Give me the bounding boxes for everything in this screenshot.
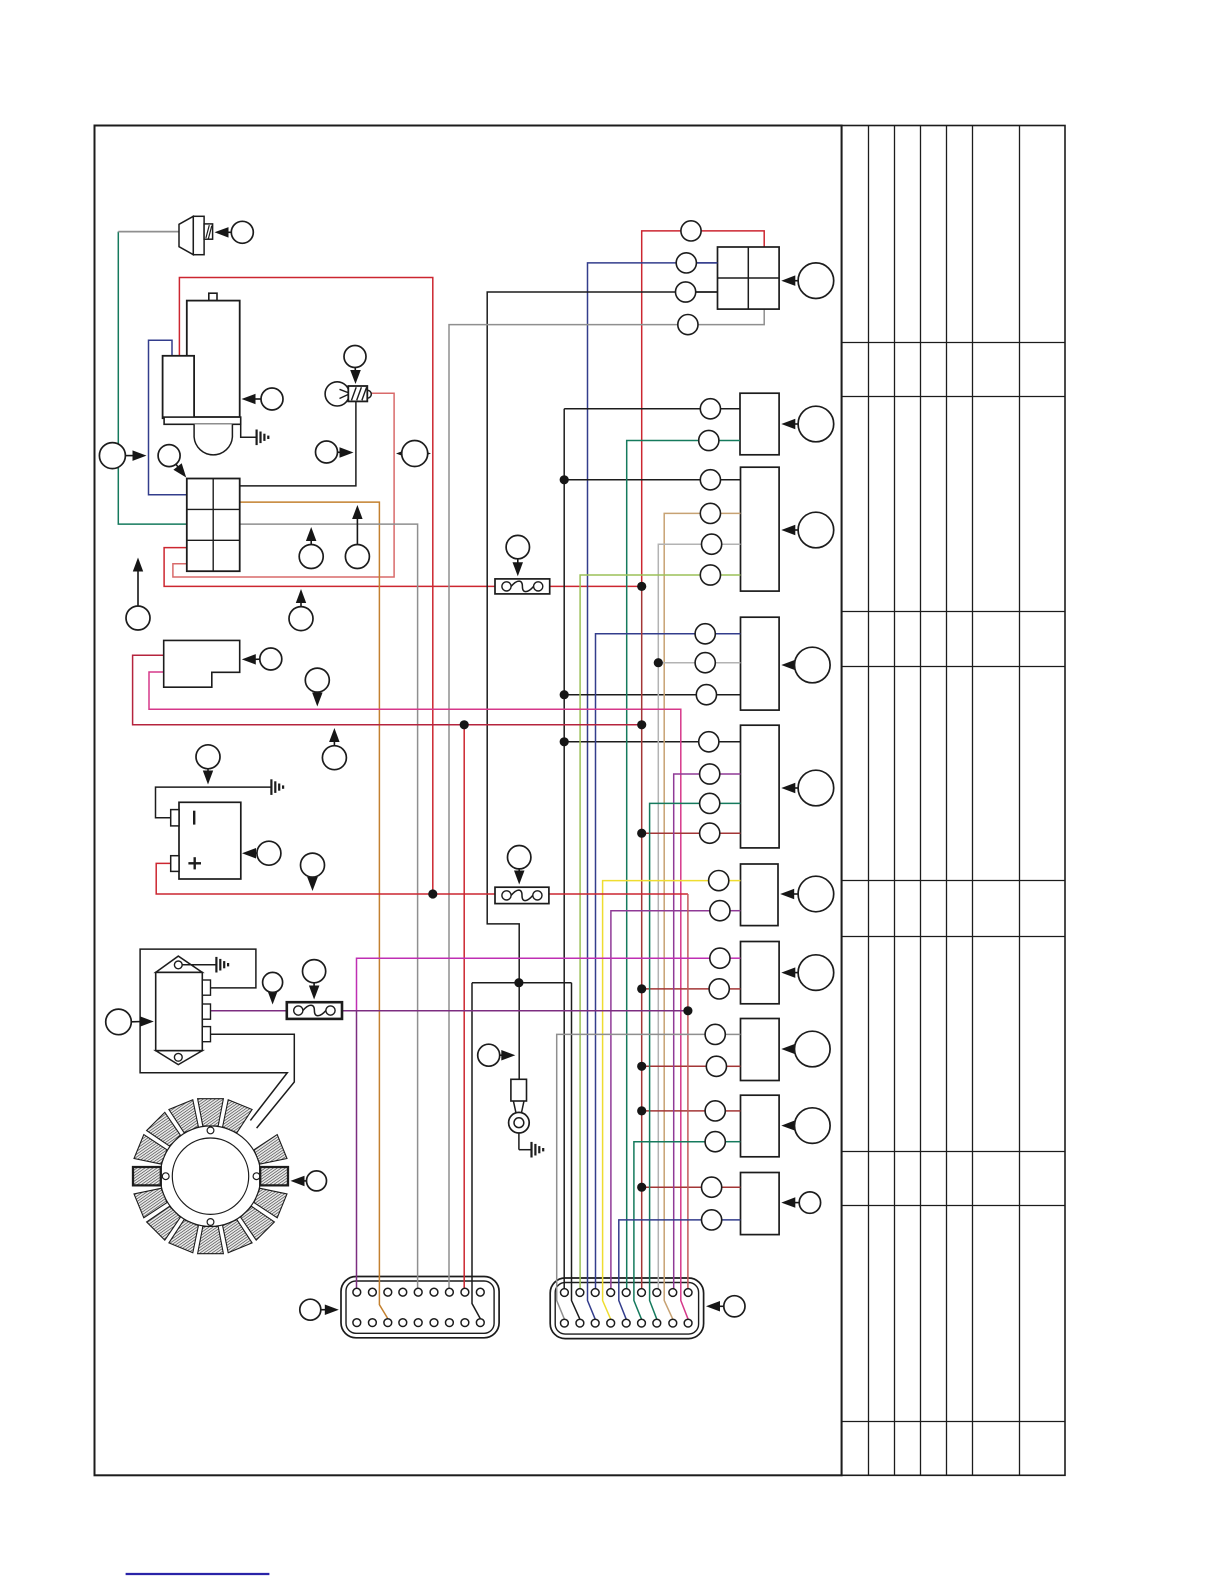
ring terminal and engine ground	[509, 1079, 532, 1149]
callout 8 gray lead	[299, 527, 323, 569]
connector A (4 pole)	[718, 247, 780, 309]
battery	[171, 802, 241, 879]
fuse F3 (main)	[287, 1002, 342, 1019]
diagram border frame	[95, 126, 842, 1476]
wire black battery negative to ground	[156, 787, 271, 818]
callout 14 crimson lead	[322, 728, 346, 770]
callout 5 red loop	[396, 441, 431, 467]
footer reference underline	[126, 1573, 270, 1575]
callout 24 stator	[291, 1171, 327, 1191]
wire regulator ground lead	[182, 964, 216, 966]
connector J (2 pole)	[741, 1173, 780, 1235]
junction dots	[428, 475, 692, 1192]
spark plug lead wire	[118, 231, 179, 233]
connector C (4 pole) pins	[700, 470, 740, 585]
callout I	[781, 1108, 830, 1144]
wire purple regulator through fuse3	[211, 1010, 287, 1012]
connector A (4 pole) pins	[676, 221, 718, 335]
wire teal conn B pin2	[627, 441, 709, 1289]
wire dark red conn E pin4	[642, 832, 710, 834]
wire gray conn H pin1	[557, 1034, 716, 1319]
callout J	[781, 1192, 820, 1213]
connector G (2 pole)	[741, 942, 780, 1004]
spark plug P1	[179, 216, 213, 254]
wire purple to left connector pin1	[356, 1011, 358, 1289]
wire dark red conn I pin1	[642, 1110, 716, 1112]
wire black bus to conn B pin1	[564, 408, 710, 410]
starter motor M	[187, 293, 240, 417]
connector B (2 pole) pins	[699, 399, 740, 451]
callout 23 ground cable	[478, 1044, 516, 1066]
connector H (2 pole) pins	[705, 1024, 740, 1076]
callout 13 pink lead	[305, 668, 329, 706]
callout B	[781, 406, 833, 442]
wire black regulator pin3 to stator	[211, 1034, 295, 1128]
callout 18 fuse F1	[506, 535, 529, 576]
wire pink key switch to right connector	[149, 672, 688, 1319]
wire navy conn J pin2	[619, 1220, 712, 1319]
connector F (2 pole)	[741, 864, 779, 926]
fuse F2	[495, 887, 549, 903]
wire black bus to conn C pin1	[564, 479, 710, 481]
connector C (4 pole)	[741, 467, 780, 591]
wire yellow conn F pin1	[603, 881, 719, 1320]
wire red branch to left connector pin8	[463, 725, 465, 1289]
callout 11 red lead	[289, 589, 313, 631]
callout 7 relay	[158, 445, 186, 478]
wire black coil to relay	[240, 402, 356, 486]
callout C	[781, 512, 833, 548]
connector I (2 pole) pins	[705, 1101, 740, 1152]
fuse F1	[495, 579, 550, 594]
wire black bus to conn E pin1	[564, 741, 709, 743]
connector E (4 pole)	[741, 725, 780, 848]
starter solenoid	[163, 356, 195, 418]
wire gray motor ground lead	[241, 424, 256, 437]
wire black ground bus horizontal	[472, 982, 572, 984]
wire dark red conn J pin1	[642, 1186, 712, 1188]
wire light green conn C pin4	[580, 575, 710, 1289]
parts table grid	[842, 126, 1065, 1476]
callout 17 battery red lead	[301, 853, 325, 891]
callout 25 left connector	[300, 1299, 339, 1320]
callout 1 spark plug	[215, 221, 254, 243]
connector E (4 pole) pins	[699, 732, 741, 844]
connector G (2 pole) pins	[709, 948, 740, 999]
wire gray conn A pin4	[449, 309, 764, 1288]
wire black regulator loop	[140, 949, 287, 1120]
callout 6 harness left	[99, 443, 146, 469]
wire navy conn A pin2	[588, 263, 718, 1319]
wire pale red relay to ignition coil loop	[173, 393, 394, 577]
connector B (2 pole)	[740, 393, 779, 455]
connector D (3 pole) pins	[695, 624, 740, 705]
callout H	[781, 1031, 830, 1067]
wire dark red conn H pin2	[642, 1065, 717, 1067]
key switch	[164, 640, 240, 687]
stator / alternator	[133, 1099, 288, 1254]
connector J (2 pole) pins	[702, 1177, 741, 1230]
wire black main bus vertical	[563, 409, 565, 1289]
wire crimson key switch feed	[133, 655, 642, 725]
wire gray relay to left connector	[240, 524, 418, 1288]
wire red conn A pin1	[642, 231, 765, 587]
callout G	[781, 955, 833, 991]
connector H (2 pole)	[741, 1019, 780, 1081]
connector F (2 pole) pins	[709, 871, 741, 921]
wire light gray conn C pin3 and conn D pin2	[658, 544, 711, 1288]
connector J19 (engine harness right) body	[550, 1278, 703, 1339]
callout F	[780, 876, 834, 912]
starter motor end dome	[194, 424, 232, 455]
wire dark red conn G pin2	[642, 988, 720, 990]
callout 9 orange lead	[345, 505, 369, 569]
callout 21 purple lead	[263, 972, 283, 1004]
regulator rectifier	[156, 956, 211, 1065]
callout 22 fuse F3	[303, 960, 326, 1000]
callout 26 right connector	[706, 1296, 745, 1317]
wire dark red distribution vertical	[641, 586, 643, 1288]
callout 3 ignition coil	[344, 346, 366, 385]
callout 15 battery ground	[196, 745, 220, 785]
callout 16 battery	[242, 841, 281, 865]
wire black ground bus to right connector	[572, 983, 580, 1319]
callout 2 starter motor	[242, 388, 284, 410]
wire orange relay to left connector	[240, 502, 388, 1319]
callout E	[781, 770, 833, 806]
wire teal spark plug lead vertical	[118, 232, 187, 524]
callout 20 regulator	[106, 1009, 154, 1035]
callout 19 fuse F2	[508, 846, 531, 885]
wire teal conn I pin2	[634, 1142, 715, 1320]
wire red fuse2 to right connector	[549, 893, 688, 895]
ground at regulator	[216, 957, 228, 973]
wire navy conn D pin1	[596, 634, 706, 1289]
callout 4 coil lead	[316, 441, 354, 463]
wire orchid conn E pin2	[674, 774, 710, 1289]
connector J18 (engine harness left) body	[341, 1277, 499, 1338]
wire magenta regulator to conn G pin1	[357, 958, 720, 1011]
wire black conn A pin3	[487, 292, 717, 1079]
wire red battery positive to fuse2	[156, 863, 495, 894]
ground at ring terminal	[532, 1142, 544, 1158]
wire navy solenoid to relay	[149, 340, 187, 494]
callout A	[781, 263, 833, 299]
wire red main loop solenoid feed	[179, 278, 432, 895]
ignition coil	[325, 382, 371, 406]
wire orchid conn F pin2	[611, 911, 720, 1289]
wire black bus to conn D pin3	[564, 694, 706, 696]
wire red relay to fuse1 to junction	[164, 548, 495, 587]
callout 10 harness lower	[126, 558, 150, 631]
ground at starter motor	[257, 430, 269, 446]
connector I (2 pole)	[741, 1095, 780, 1157]
ground at battery	[271, 779, 283, 795]
connector J19 (engine harness right) pins	[561, 1289, 692, 1327]
callout 12 key switch	[242, 648, 282, 670]
starter motor flange	[164, 417, 241, 424]
wire black ground bus to left connector	[472, 983, 480, 1319]
connector D (3 pole)	[741, 617, 780, 710]
callout D	[781, 647, 830, 683]
connector J18 (engine harness left) pins	[353, 1288, 484, 1326]
wire teal conn E pin3	[650, 803, 710, 1319]
wire tan conn C pin2	[664, 513, 710, 1319]
relay block	[187, 479, 240, 572]
